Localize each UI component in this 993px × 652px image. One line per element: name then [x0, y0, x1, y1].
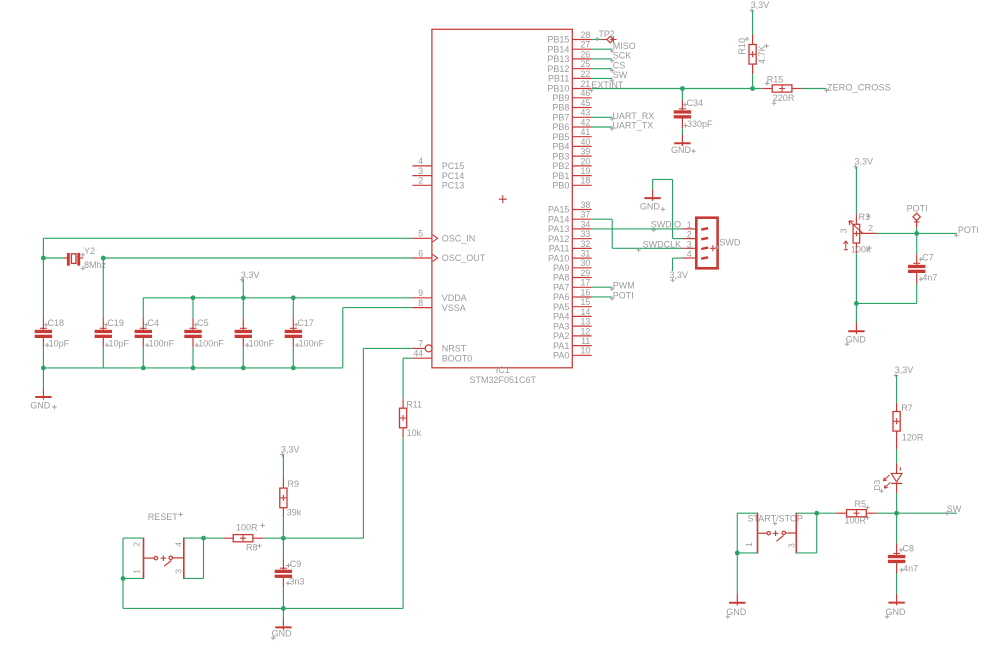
svg-text:C9: C9 — [290, 559, 302, 569]
wire + node net SCK — [592, 51, 632, 63]
svg-text:12: 12 — [581, 326, 591, 336]
capacitor C5 100nF — [184, 298, 224, 368]
svg-text:1: 1 — [744, 542, 754, 547]
svg-text:4n7: 4n7 — [903, 563, 918, 573]
power 3,3V supply (R3) — [853, 157, 873, 215]
pin 34 PA13 — [548, 219, 592, 234]
svg-text:PA12: PA12 — [548, 234, 569, 244]
svg-text:4: 4 — [687, 249, 692, 259]
svg-text:6: 6 — [418, 248, 423, 258]
node OSC_IN junction — [41, 256, 46, 261]
ground GND (potentiometer) — [845, 303, 867, 346]
svg-text:GND: GND — [30, 400, 51, 410]
svg-text:10pF: 10pF — [109, 338, 130, 348]
wire + node net POTI label — [917, 225, 979, 237]
svg-text:GND: GND — [726, 607, 747, 617]
svg-text:OSC_IN: OSC_IN — [442, 234, 476, 244]
svg-text:SWD: SWD — [719, 238, 740, 248]
svg-text:3,3V: 3,3V — [895, 365, 914, 375]
pin 11 PA1 — [553, 336, 592, 351]
svg-text:8: 8 — [418, 298, 423, 308]
pin 6 OSC_OUT — [412, 248, 485, 263]
svg-text:3,3V: 3,3V — [751, 0, 770, 10]
svg-text:100R: 100R — [845, 516, 867, 526]
svg-text:SWDIO: SWDIO — [651, 219, 682, 229]
ground GND (crystal caps) — [30, 368, 56, 411]
svg-text:C8: C8 — [903, 543, 915, 553]
capacitor C4 100nF — [135, 298, 175, 368]
svg-text:11: 11 — [581, 336, 590, 346]
junctions on GND rail — [41, 366, 296, 371]
pin 38 PA15 — [548, 200, 592, 215]
svg-text:3n3: 3n3 — [289, 577, 304, 587]
node net ZERO_CROSS label — [824, 83, 891, 93]
svg-text:UART_TX: UART_TX — [612, 121, 653, 131]
pin 45 PB8 — [552, 98, 591, 113]
pin 41 PB5 — [552, 127, 591, 142]
potentiometer R3 100k — [838, 212, 873, 304]
svg-text:PB11: PB11 — [548, 74, 569, 84]
svg-text:PB3: PB3 — [552, 151, 569, 161]
wire reset switch to rail — [122, 578, 124, 608]
svg-text:10: 10 — [581, 346, 591, 356]
pin 39 PB3 — [552, 147, 591, 162]
svg-text:PB8: PB8 — [552, 103, 569, 113]
node net EXTINT label — [589, 80, 624, 93]
pin 3 PC14 — [412, 166, 464, 181]
junctions on 3.3V rail — [191, 295, 296, 300]
svg-text:R10: R10 — [737, 38, 747, 55]
svg-text:IC1: IC1 — [496, 365, 510, 375]
svg-text:PA2: PA2 — [553, 331, 569, 341]
svg-text:RESET: RESET — [148, 512, 179, 522]
svg-text:2: 2 — [131, 542, 141, 547]
svg-text:PA8: PA8 — [553, 273, 569, 283]
pin 44 BOOT0 — [412, 349, 472, 364]
pin 26 PB13 — [547, 49, 591, 64]
ground GND (SWD) — [640, 189, 665, 211]
pin 18 PB0 — [552, 176, 591, 191]
svg-text:C18: C18 — [48, 318, 65, 328]
svg-text:PA7: PA7 — [553, 283, 569, 293]
svg-text:GND: GND — [671, 145, 692, 155]
svg-text:PA11: PA11 — [549, 244, 570, 254]
svg-text:3,3V: 3,3V — [241, 270, 260, 280]
svg-text:PC14: PC14 — [442, 171, 465, 181]
svg-text:46: 46 — [581, 88, 591, 98]
pin 20 PB2 — [552, 156, 591, 171]
ground GND (C8) — [885, 594, 906, 619]
ground GND (start/stop switch) — [726, 553, 747, 619]
svg-text:29: 29 — [581, 268, 591, 278]
pin 12 PA2 — [553, 326, 592, 341]
node reset switch junctions — [121, 536, 206, 581]
svg-text:10pF: 10pF — [49, 338, 70, 348]
svg-text:PB15: PB15 — [547, 35, 569, 45]
svg-text:2: 2 — [687, 230, 692, 240]
resistor R15 220R — [762, 74, 826, 105]
wire + node net TP2 test point — [592, 29, 617, 43]
wire + node net UART_TX — [592, 121, 654, 132]
svg-text:C4: C4 — [147, 318, 159, 328]
switch S1 actuator — [144, 555, 184, 566]
wire + node net SW — [592, 70, 628, 82]
svg-text:39: 39 — [581, 147, 591, 157]
capacitor C9 3n3 — [275, 538, 305, 608]
ground GND (C34) — [671, 135, 696, 156]
node POTI junction — [914, 231, 919, 236]
svg-text:SW: SW — [947, 504, 962, 514]
svg-text:PB5: PB5 — [552, 132, 569, 142]
wire + node net POTI — [592, 290, 634, 301]
pin 7 NRST — [412, 339, 466, 354]
wire + node net SW label — [897, 504, 962, 516]
svg-text:4.7K: 4.7K — [757, 45, 767, 64]
svg-text:PB2: PB2 — [552, 161, 569, 171]
pin 10 PA0 — [553, 346, 592, 361]
capacitor C? 100nF — [235, 298, 275, 368]
svg-text:PA5: PA5 — [553, 302, 569, 312]
IC IC1 STM32F051C6T microcontroller body — [432, 29, 572, 385]
svg-text:4n7: 4n7 — [922, 273, 937, 283]
svg-text:13: 13 — [581, 317, 591, 327]
pin 22 PB11 — [548, 69, 592, 84]
svg-text:PA1: PA1 — [553, 341, 569, 351]
switch S1 left contact pair pins 2/1 — [123, 538, 144, 580]
svg-text:R9: R9 — [288, 479, 300, 489]
svg-text:PA15: PA15 — [548, 205, 569, 215]
wire net BOOT0 — [403, 358, 412, 398]
node net SWDIO label — [651, 219, 682, 232]
svg-text:GND: GND — [640, 202, 661, 212]
svg-text:14: 14 — [581, 307, 591, 317]
svg-text:32: 32 — [581, 239, 591, 249]
pin 14 PA4 — [553, 307, 592, 322]
svg-text:30: 30 — [581, 258, 591, 268]
capacitor C17 100nF — [285, 298, 325, 368]
svg-text:ZERO_CROSS: ZERO_CROSS — [827, 83, 891, 93]
resistor R11 10k — [400, 399, 423, 438]
svg-text:45: 45 — [581, 98, 591, 108]
svg-text:3: 3 — [787, 543, 797, 548]
svg-text:10k: 10k — [407, 428, 422, 438]
svg-text:PB13: PB13 — [547, 54, 569, 64]
svg-text:15: 15 — [581, 297, 591, 307]
power 3,3V supply (SWD) — [670, 270, 689, 283]
wire net VSSA — [343, 308, 413, 368]
node EXTINT junctions — [680, 86, 755, 91]
svg-text:2: 2 — [868, 223, 873, 233]
svg-text:19: 19 — [581, 166, 591, 176]
capacitor C8 4n7 — [888, 513, 918, 594]
svg-text:3: 3 — [687, 239, 692, 249]
svg-text:44: 44 — [413, 349, 423, 359]
svg-text:PB12: PB12 — [547, 64, 569, 74]
svg-text:39k: 39k — [287, 508, 302, 518]
svg-text:7: 7 — [418, 339, 423, 349]
wire + node net CS — [592, 60, 626, 72]
svg-text:38: 38 — [581, 200, 591, 210]
svg-text:22: 22 — [581, 69, 591, 79]
pin 33 PA12 — [548, 229, 592, 244]
svg-text:100nF: 100nF — [249, 338, 275, 348]
wire net OSC_IN — [43, 238, 412, 258]
svg-text:1: 1 — [687, 220, 692, 230]
power 3,3V supply (decoupling rail) — [240, 270, 260, 298]
LED D3 — [872, 463, 902, 513]
node SW junction — [894, 511, 899, 516]
pin 30 PA9 — [553, 258, 592, 273]
wire net OSC_OUT — [103, 257, 412, 259]
svg-text:C17: C17 — [297, 318, 314, 328]
svg-text:PC13: PC13 — [442, 181, 465, 191]
svg-text:GND: GND — [272, 628, 293, 638]
svg-text:31: 31 — [581, 249, 591, 259]
pin 4 PC15 — [412, 156, 464, 171]
svg-text:VSSA: VSSA — [442, 303, 466, 313]
wire + node net PWM — [592, 281, 635, 292]
svg-text:4: 4 — [174, 542, 184, 547]
pin 16 PA6 — [553, 287, 592, 302]
pin 29 PA8 — [553, 268, 592, 283]
wire R11 to bottom rail — [123, 437, 403, 608]
node start/stop junctions — [735, 511, 819, 555]
resistor R9 39k — [280, 479, 302, 539]
power 3,3V supply (R9) — [280, 444, 299, 478]
svg-text:BOOT0: BOOT0 — [442, 353, 473, 363]
svg-text:4: 4 — [418, 156, 423, 166]
svg-text:SWDCLK: SWDCLK — [643, 240, 682, 250]
svg-text:C19: C19 — [107, 318, 124, 328]
node net SWDCLK label — [636, 240, 681, 253]
svg-text:PC15: PC15 — [442, 161, 465, 171]
capacitor C19 10pF — [95, 318, 130, 368]
svg-text:27: 27 — [581, 40, 591, 50]
svg-text:20: 20 — [581, 156, 591, 166]
svg-text:9: 9 — [418, 288, 423, 298]
svg-text:37: 37 — [581, 210, 591, 220]
svg-text:100k: 100k — [851, 245, 871, 255]
svg-text:330pF: 330pF — [687, 119, 713, 129]
svg-text:VDDA: VDDA — [442, 293, 467, 303]
svg-text:PA3: PA3 — [553, 321, 569, 331]
power 3,3V supply (R7) — [894, 365, 914, 403]
wire net SWDIO (PA13 to SWD pin1) — [592, 228, 683, 230]
svg-text:PB0: PB0 — [552, 181, 569, 191]
svg-text:100R: 100R — [236, 523, 258, 533]
svg-text:100nF: 100nF — [299, 338, 325, 348]
svg-text:100nF: 100nF — [149, 338, 175, 348]
wire + node net MISO — [592, 41, 636, 53]
svg-text:3: 3 — [838, 228, 848, 233]
capacitor C18 10pF — [35, 318, 70, 368]
capacitor C7 4n7 — [856, 233, 937, 303]
svg-text:UART_RX: UART_RX — [612, 111, 654, 121]
svg-text:R8: R8 — [246, 543, 258, 553]
pin 43 PB7 — [552, 108, 591, 123]
pin 8 VSSA — [412, 298, 465, 313]
pin 37 PA14 — [548, 210, 592, 225]
svg-text:D3: D3 — [872, 479, 882, 490]
svg-text:26: 26 — [581, 49, 591, 59]
wire net SWDCLK (PA14 to SWD pin3) — [592, 219, 683, 248]
svg-text:PB1: PB1 — [552, 171, 569, 181]
resistor R5 100R — [817, 499, 897, 525]
svg-text:3: 3 — [174, 569, 184, 574]
switch S2 right contact pair — [787, 513, 817, 554]
pin 13 PA3 — [553, 317, 592, 332]
pin 9 VDDA — [412, 288, 466, 303]
wire SWD pin2 to GND — [653, 179, 683, 238]
pin 15 PA5 — [553, 297, 592, 312]
svg-text:2: 2 — [418, 176, 423, 186]
svg-text:3: 3 — [418, 166, 423, 176]
svg-text:SCK: SCK — [613, 51, 632, 61]
resistor R10 4.7K — [737, 35, 769, 89]
svg-text:C34: C34 — [687, 98, 704, 108]
svg-text:TP2: TP2 — [599, 29, 615, 39]
svg-text:PA13: PA13 — [548, 224, 569, 234]
pin 19 PB1 — [552, 166, 591, 181]
pin 42 PB6 — [552, 117, 591, 132]
svg-text:PA0: PA0 — [553, 351, 569, 361]
power 3,3V supply (R10) — [750, 0, 770, 35]
svg-text:PA6: PA6 — [553, 292, 569, 302]
svg-text:100nF: 100nF — [198, 338, 224, 348]
capacitor C34 330pF — [674, 89, 713, 135]
switch S2 START/STOP — [747, 513, 803, 525]
wire net NRST — [283, 348, 412, 538]
node OSC_OUT junction — [101, 256, 106, 261]
connector SWD pin header — [683, 218, 741, 269]
resistor R7 120R — [893, 403, 924, 463]
svg-text:220R: 220R — [773, 93, 795, 103]
svg-text:GND: GND — [886, 607, 907, 617]
svg-text:PB7: PB7 — [552, 113, 569, 123]
switch S1 right contact pair pins 4/3 — [174, 538, 204, 580]
svg-text:3,3V: 3,3V — [281, 444, 300, 454]
svg-text:POTI: POTI — [958, 225, 979, 235]
switch S1 RESET — [148, 512, 183, 522]
node NRST junction — [281, 536, 286, 541]
svg-text:25: 25 — [581, 59, 591, 69]
svg-text:PB6: PB6 — [552, 122, 569, 132]
wire R3 wiper — [860, 232, 917, 234]
switch S2 actuator — [758, 531, 797, 542]
svg-text:28: 28 — [581, 30, 591, 40]
svg-text:5: 5 — [418, 229, 423, 239]
svg-text:R11: R11 — [406, 400, 422, 410]
pin 28 PB15 — [547, 30, 591, 45]
wire C19 top branch — [102, 258, 104, 318]
svg-text:Y2: Y2 — [84, 246, 95, 256]
svg-text:42: 42 — [581, 117, 591, 127]
pin 32 PA11 — [549, 239, 592, 254]
pin 31 PA10 — [548, 249, 592, 264]
svg-text:POTI: POTI — [613, 290, 634, 300]
svg-text:OSC_OUT: OSC_OUT — [442, 253, 486, 263]
pin 25 PB12 — [547, 59, 591, 74]
pin 5 OSC_IN — [412, 229, 475, 244]
wire + node net UART_RX — [592, 111, 655, 122]
svg-text:16: 16 — [581, 287, 591, 297]
wire C18 top branch — [42, 258, 44, 318]
svg-text:PA14: PA14 — [548, 214, 569, 224]
pin 27 PB14 — [547, 40, 591, 55]
pin 21 PB10 — [547, 79, 591, 94]
svg-text:PA4: PA4 — [553, 312, 569, 322]
svg-text:C7: C7 — [922, 253, 934, 263]
svg-text:R15: R15 — [767, 74, 784, 84]
svg-text:R7: R7 — [901, 403, 913, 413]
svg-text:PB14: PB14 — [547, 44, 569, 54]
svg-text:GND: GND — [846, 335, 867, 345]
wire 3.3V rail — [143, 297, 412, 299]
svg-text:1: 1 — [131, 569, 141, 574]
switch S2 left contact pair — [737, 513, 757, 554]
svg-text:43: 43 — [581, 108, 591, 118]
node pot GND junction — [854, 301, 859, 306]
svg-text:PA10: PA10 — [548, 253, 569, 263]
svg-text:NRST: NRST — [442, 344, 467, 354]
ground GND (reset section) — [271, 608, 292, 640]
node POTI test point TP — [907, 204, 928, 234]
svg-text:POTI: POTI — [907, 204, 928, 214]
crystal Y2 8Mhz — [64, 246, 107, 271]
svg-text:3,3V: 3,3V — [855, 157, 874, 167]
pin 46 PB9 — [552, 88, 591, 103]
svg-text:PA9: PA9 — [553, 263, 569, 273]
wire GND rail bottom-left — [43, 367, 342, 369]
svg-text:17: 17 — [581, 278, 591, 288]
svg-text:PB4: PB4 — [552, 142, 569, 152]
svg-text:40: 40 — [581, 137, 591, 147]
svg-text:120R: 120R — [902, 433, 924, 443]
svg-text:33: 33 — [581, 229, 591, 239]
svg-text:EXTINT: EXTINT — [591, 80, 624, 90]
pin 40 PB4 — [552, 137, 591, 152]
wire net EXTINT — [592, 88, 763, 90]
svg-text:18: 18 — [581, 176, 591, 186]
wire SWD pin4 to 3,3V — [673, 258, 683, 271]
svg-text:SW: SW — [613, 70, 628, 80]
svg-text:STM32F051C6T: STM32F051C6T — [470, 375, 537, 385]
svg-text:34: 34 — [581, 219, 591, 229]
svg-text:C5: C5 — [197, 318, 209, 328]
pin 17 PA7 — [553, 278, 592, 293]
svg-text:PWM: PWM — [613, 281, 635, 291]
node GND rail junction (reset) — [281, 606, 286, 611]
svg-text:R5: R5 — [855, 499, 867, 509]
svg-text:MISO: MISO — [613, 41, 636, 51]
pin 2 PC13 — [412, 176, 464, 191]
svg-text:PB9: PB9 — [552, 93, 569, 103]
svg-text:CS: CS — [613, 60, 626, 70]
svg-text:41: 41 — [581, 127, 591, 137]
resistor R8 100R — [204, 523, 284, 553]
